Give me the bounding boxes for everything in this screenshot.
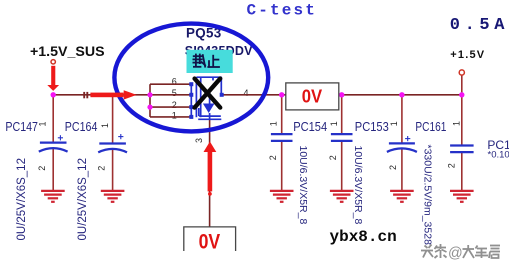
wire ladder pin5 [150, 94, 191, 96]
highlight ellipse around PQ53 [114, 24, 268, 132]
junction node dots [51, 92, 465, 110]
wire PC153 drop [341, 95, 343, 134]
wire PC164 to ground [112, 150, 114, 191]
bus junction squares [189, 82, 223, 119]
wire PC164 drop [112, 95, 114, 144]
svg-text:5: 5 [172, 88, 177, 98]
svg-text:0U/25V/X6S_12: 0U/25V/X6S_12 [16, 158, 28, 240]
wire ladder pin2 [150, 106, 191, 108]
capacitor PC164 plates [98, 144, 127, 153]
PC147 plus mark [58, 135, 63, 140]
svg-text:*330U/2.5V/9m_3528: *330U/2.5V/9m_3528 [422, 145, 434, 246]
svg-text:1: 1 [452, 121, 462, 126]
svg-text:2: 2 [388, 165, 398, 170]
red arrow down at +1.5V_SUS [47, 66, 59, 91]
X mark over transistor [195, 79, 221, 108]
wire PC161 to ground [401, 150, 403, 191]
wire PC154 drop [281, 95, 283, 134]
wire PC147 drop [52, 95, 54, 143]
wire PC16x drop [461, 95, 463, 146]
wire PC147 to ground [52, 149, 54, 191]
ground PC147 [41, 191, 65, 202]
ground PC153 [330, 191, 354, 202]
svg-text:2: 2 [172, 100, 177, 110]
ferrite bead / jumper on input wire [84, 92, 87, 98]
wire pin4 to +1.5V bus [222, 94, 462, 96]
svg-text:0U/25V/X6S_12: 0U/25V/X6S_12 [77, 158, 89, 240]
svg-text:2: 2 [96, 166, 106, 171]
wire ladder left bus [149, 84, 151, 117]
svg-text:10U/6.3V/X5R_8: 10U/6.3V/X5R_8 [297, 146, 309, 225]
svg-text:C-test: C-test [247, 2, 318, 20]
0V measurement box at gate [184, 227, 236, 251]
svg-text:*0.10: *0.10 [488, 150, 509, 161]
svg-text:0.5A: 0.5A [450, 16, 509, 35]
svg-text:@: @ [448, 246, 463, 262]
red arrow up at gate [204, 142, 217, 196]
wire PC153 to ground [341, 141, 343, 191]
watermark 头条@大年君 strokes [421, 244, 447, 258]
svg-text:1: 1 [38, 121, 48, 126]
ground PC154 [270, 191, 294, 202]
svg-text:2: 2 [268, 155, 278, 160]
capacitor PC154 plates [271, 134, 293, 141]
svg-text:1: 1 [329, 121, 339, 126]
svg-text:4: 4 [244, 88, 249, 98]
svg-text:1: 1 [100, 123, 110, 128]
MOSFET PQ53 symbol body [196, 77, 221, 119]
PC161 plus mark [405, 136, 410, 141]
svg-text:0V: 0V [302, 86, 323, 107]
power circle +1.5V [459, 70, 464, 75]
big red arrow into transistor [90, 90, 136, 99]
svg-text:+1.5V: +1.5V [450, 49, 485, 61]
svg-text:2: 2 [447, 163, 457, 168]
wire PC154 to ground [281, 141, 283, 191]
svg-text:1: 1 [269, 121, 279, 126]
svg-text:2: 2 [328, 155, 338, 160]
wire PC16x to ground [461, 152, 463, 191]
capacitor PC153 plates [331, 134, 353, 141]
svg-text:1: 1 [172, 110, 177, 120]
MOSFET body diode [203, 104, 215, 114]
0V measurement box on +1.5V net [286, 83, 339, 110]
ground PC164 [101, 191, 125, 202]
wire input net +1.5V_SUS to ladder [53, 94, 150, 96]
ground PC16x [450, 191, 474, 202]
power circle +1.5V_SUS [51, 60, 55, 64]
svg-text:PC153: PC153 [355, 120, 389, 134]
svg-text:+1.5V_SUS: +1.5V_SUS [30, 44, 105, 60]
MOSFET bus vertical [190, 84, 192, 117]
svg-text:PC161: PC161 [415, 120, 446, 134]
capacitor PC16x plates [450, 146, 474, 153]
capacitor PC161 plates [387, 143, 417, 152]
wire ladder pin1 [150, 116, 191, 118]
svg-text:PC147: PC147 [5, 120, 38, 134]
svg-text:3: 3 [194, 138, 204, 143]
wire PC161 drop [401, 95, 403, 144]
annotation 截止 (cut-off) strokes [193, 54, 220, 68]
svg-text:PC164: PC164 [65, 120, 98, 134]
svg-text:ybx8.cn: ybx8.cn [330, 228, 397, 246]
cyan highlight box [187, 50, 233, 73]
svg-text:1: 1 [389, 121, 399, 126]
wire ladder pin6 [150, 83, 191, 85]
wire +1.5V symbol stub [461, 75, 463, 95]
PC164 plus mark [118, 134, 123, 139]
ground PC161 [390, 191, 414, 202]
svg-text:2: 2 [37, 166, 47, 171]
wire pin3 to 0V probe [209, 119, 211, 227]
svg-text:10U/6.3V/X5R_8: 10U/6.3V/X5R_8 [352, 146, 364, 225]
capacitor PC147 plates [39, 143, 68, 152]
svg-text:0V: 0V [199, 229, 221, 253]
svg-text:PC154: PC154 [293, 120, 327, 134]
